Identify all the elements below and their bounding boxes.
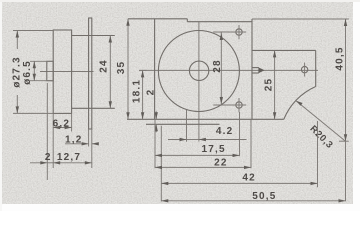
dimension 24 line and arrows: [109, 36, 112, 109]
scan border: bottom white band: [0, 204, 360, 212]
svg-text:35: 35: [116, 61, 127, 75]
dimension 24 text: [99, 59, 110, 73]
dimension 18.1 line and arrows: [141, 70, 144, 119]
bottom extension: right extension edge: [317, 121, 319, 187]
front view: plate right edge: [251, 19, 253, 119]
dimension 50,5 text: [252, 191, 276, 202]
bottom extension: datum for 42 and 50,5: [160, 126, 162, 202]
bottom extension: plate right edge: [250, 119, 252, 168]
dimension 2 extension left (shaft tip): [46, 83, 48, 180]
dimension 28 text: [212, 59, 223, 73]
dimension 1,2 extension left: [88, 129, 90, 147]
dimension 2 and 12,7 line and arrows: [30, 161, 92, 164]
dimension 1,2 text: [65, 134, 83, 145]
dimension 1,2 extension right: [91, 129, 93, 147]
scan border: right white strip: [353, 0, 360, 211]
dimension 42 line and arrows: [161, 182, 317, 185]
dimension 2 and 12,7 shared extension: [52, 132, 54, 169]
dimension 25 line and arrows: [273, 50, 276, 119]
svg-text:12,7: 12,7: [57, 152, 81, 163]
bottom extension: mounting hole: [239, 112, 241, 156]
dimension 18.1 axis tick: [139, 69, 147, 71]
left view: panel bar: [89, 18, 92, 129]
svg-text:50,5: 50,5: [252, 191, 276, 202]
dimension 25 text: [264, 78, 275, 92]
left view: barrel bottom edge: [72, 107, 115, 109]
dimension 50,5 line and arrows: [161, 199, 345, 202]
dimension 12,7 text: [57, 152, 81, 163]
front view: right extension concave arc R20,3: [284, 87, 316, 120]
dimension d6.5 text: [22, 60, 33, 85]
dimension d6.5 line and arrows: [33, 61, 36, 80]
svg-text:17,5: 17,5: [201, 144, 225, 155]
dimension 17,5 text: [201, 144, 225, 155]
dimension 2 (front) line and arrows: [155, 111, 158, 132]
svg-text:4.2: 4.2: [216, 126, 234, 137]
R20,3 leader line and arrow: [296, 101, 346, 142]
dimension 35 text: [116, 61, 127, 75]
dimension d6.5 extension top: [30, 60, 53, 62]
dimension d6.5 extension bottom: [30, 80, 53, 82]
dimension 4.2 text: [216, 126, 234, 137]
front view: plate left edge: [154, 19, 156, 120]
front view: bottom mounting hole: [213, 98, 246, 112]
front view: right extension top edge: [252, 49, 316, 51]
left view: axis center line: [40, 71, 94, 73]
dimension 40,5 line and arrows: [344, 19, 347, 201]
dimension 4.2 line and arrows: [168, 138, 247, 141]
dimension 12,7 extension right: [91, 147, 93, 169]
dimension 40,5 text: [335, 46, 346, 70]
bottom extension: plate left edge: [154, 119, 156, 168]
front view: extension hole: [301, 63, 307, 77]
front view: plate top step: [186, 19, 188, 22]
svg-text:1,2: 1,2: [65, 134, 83, 145]
dimension 18.1 text: [131, 79, 142, 103]
dimension 2 text: [45, 152, 52, 163]
dimension 6,2 line and arrows: [53, 126, 71, 129]
front view: top mounting hole: [213, 25, 246, 39]
dimension d27.3 extension top: [13, 30, 53, 32]
R20,3 text: [307, 123, 334, 150]
svg-text:25: 25: [264, 78, 275, 92]
front view: center hole: [189, 61, 208, 80]
front view: horizontal axis center line: [140, 69, 319, 71]
dimension 1,2 line and arrows: [65, 142, 99, 145]
dimension 35 line and arrows: [126, 19, 129, 120]
front view: right extension right edge: [315, 50, 317, 86]
dimension 6,2 text: [53, 118, 71, 129]
front view: plate top-left edge: [128, 18, 187, 20]
dimension 40,5 extension bottom: [339, 140, 349, 142]
front view: vertical center line: [198, 22, 200, 142]
left view: button shaft: [47, 61, 53, 80]
left view: flange body: [53, 30, 71, 113]
dimension 6,2 extension left: [52, 113, 54, 131]
left view: barrel top edge: [72, 35, 115, 37]
dimension d27.3 line and arrows: [16, 31, 19, 114]
svg-text:42: 42: [242, 172, 256, 183]
dimension d27.3 text: [12, 56, 23, 88]
svg-text:2: 2: [146, 89, 157, 96]
front view: latch tongue line: [146, 123, 220, 125]
dimension 6,2 extension right: [71, 113, 73, 131]
svg-text:ø6.5: ø6.5: [22, 60, 33, 85]
svg-text:28: 28: [212, 59, 223, 73]
dimension 40,5 extension top: [252, 18, 349, 20]
scan border: left white sliver: [0, 0, 2, 211]
svg-text:ø27.3: ø27.3: [12, 56, 23, 88]
dimension 2 (front) text: [146, 89, 157, 96]
dimension 4.2 extension left: [186, 110, 188, 142]
svg-text:6,2: 6,2: [53, 118, 71, 129]
front view: big circle: [158, 31, 239, 112]
dimension d27.3 extension bottom: [13, 112, 53, 114]
svg-text:18.1: 18.1: [131, 79, 142, 103]
svg-text:24: 24: [99, 59, 110, 73]
svg-text:40,5: 40,5: [335, 46, 346, 70]
front view: plate bottom edge: [127, 118, 284, 120]
dimension 22 text: [214, 158, 228, 169]
latch pawl at plate right edge: [252, 67, 265, 73]
dimension 17,5 line and arrows: [155, 154, 240, 157]
svg-text:2: 2: [45, 152, 52, 163]
dimension 22 line and arrows: [155, 166, 251, 169]
svg-text:22: 22: [214, 158, 228, 169]
front view: plate top-right edge: [187, 21, 252, 23]
dimension 42 text: [242, 172, 256, 183]
scan border: top white sliver: [0, 0, 360, 2]
dimension 28 line and arrows: [220, 32, 223, 105]
